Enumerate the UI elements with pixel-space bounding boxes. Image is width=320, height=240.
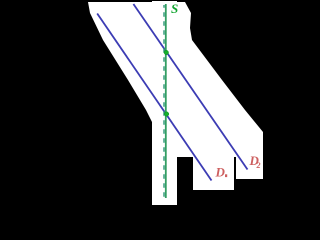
svg-text:S: S: [171, 1, 178, 16]
svg-text:D: D: [215, 165, 226, 180]
svg-text:2: 2: [256, 161, 261, 170]
